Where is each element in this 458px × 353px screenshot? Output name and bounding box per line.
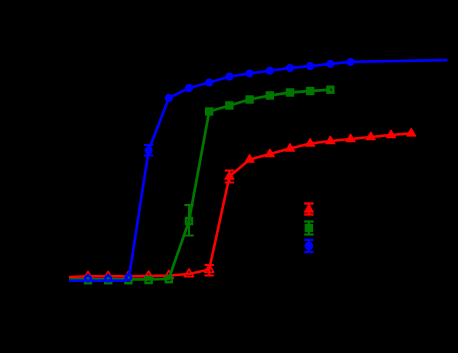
green curve line (69, 90, 330, 280)
legend red entry (304, 204, 313, 215)
red triangle markers (plateau, filled) (225, 128, 416, 179)
red error bar at x=209 (205, 265, 214, 276)
red curve line (69, 133, 411, 277)
blue error bar at x=148 (144, 145, 153, 156)
blue circle markers (filled) (165, 67, 274, 103)
legend blue entry (304, 240, 313, 252)
blue circle markers (open) (85, 59, 353, 281)
green square markers (baseline+mid, open) (85, 218, 192, 283)
red error bar at x=229 (225, 171, 234, 183)
blue curve line (69, 60, 448, 281)
legend green entry (304, 222, 313, 235)
green error bar at x=189 (184, 205, 193, 236)
green square markers (plateau, bold) (207, 87, 334, 114)
red triangle markers (baseline, open) (84, 265, 214, 279)
